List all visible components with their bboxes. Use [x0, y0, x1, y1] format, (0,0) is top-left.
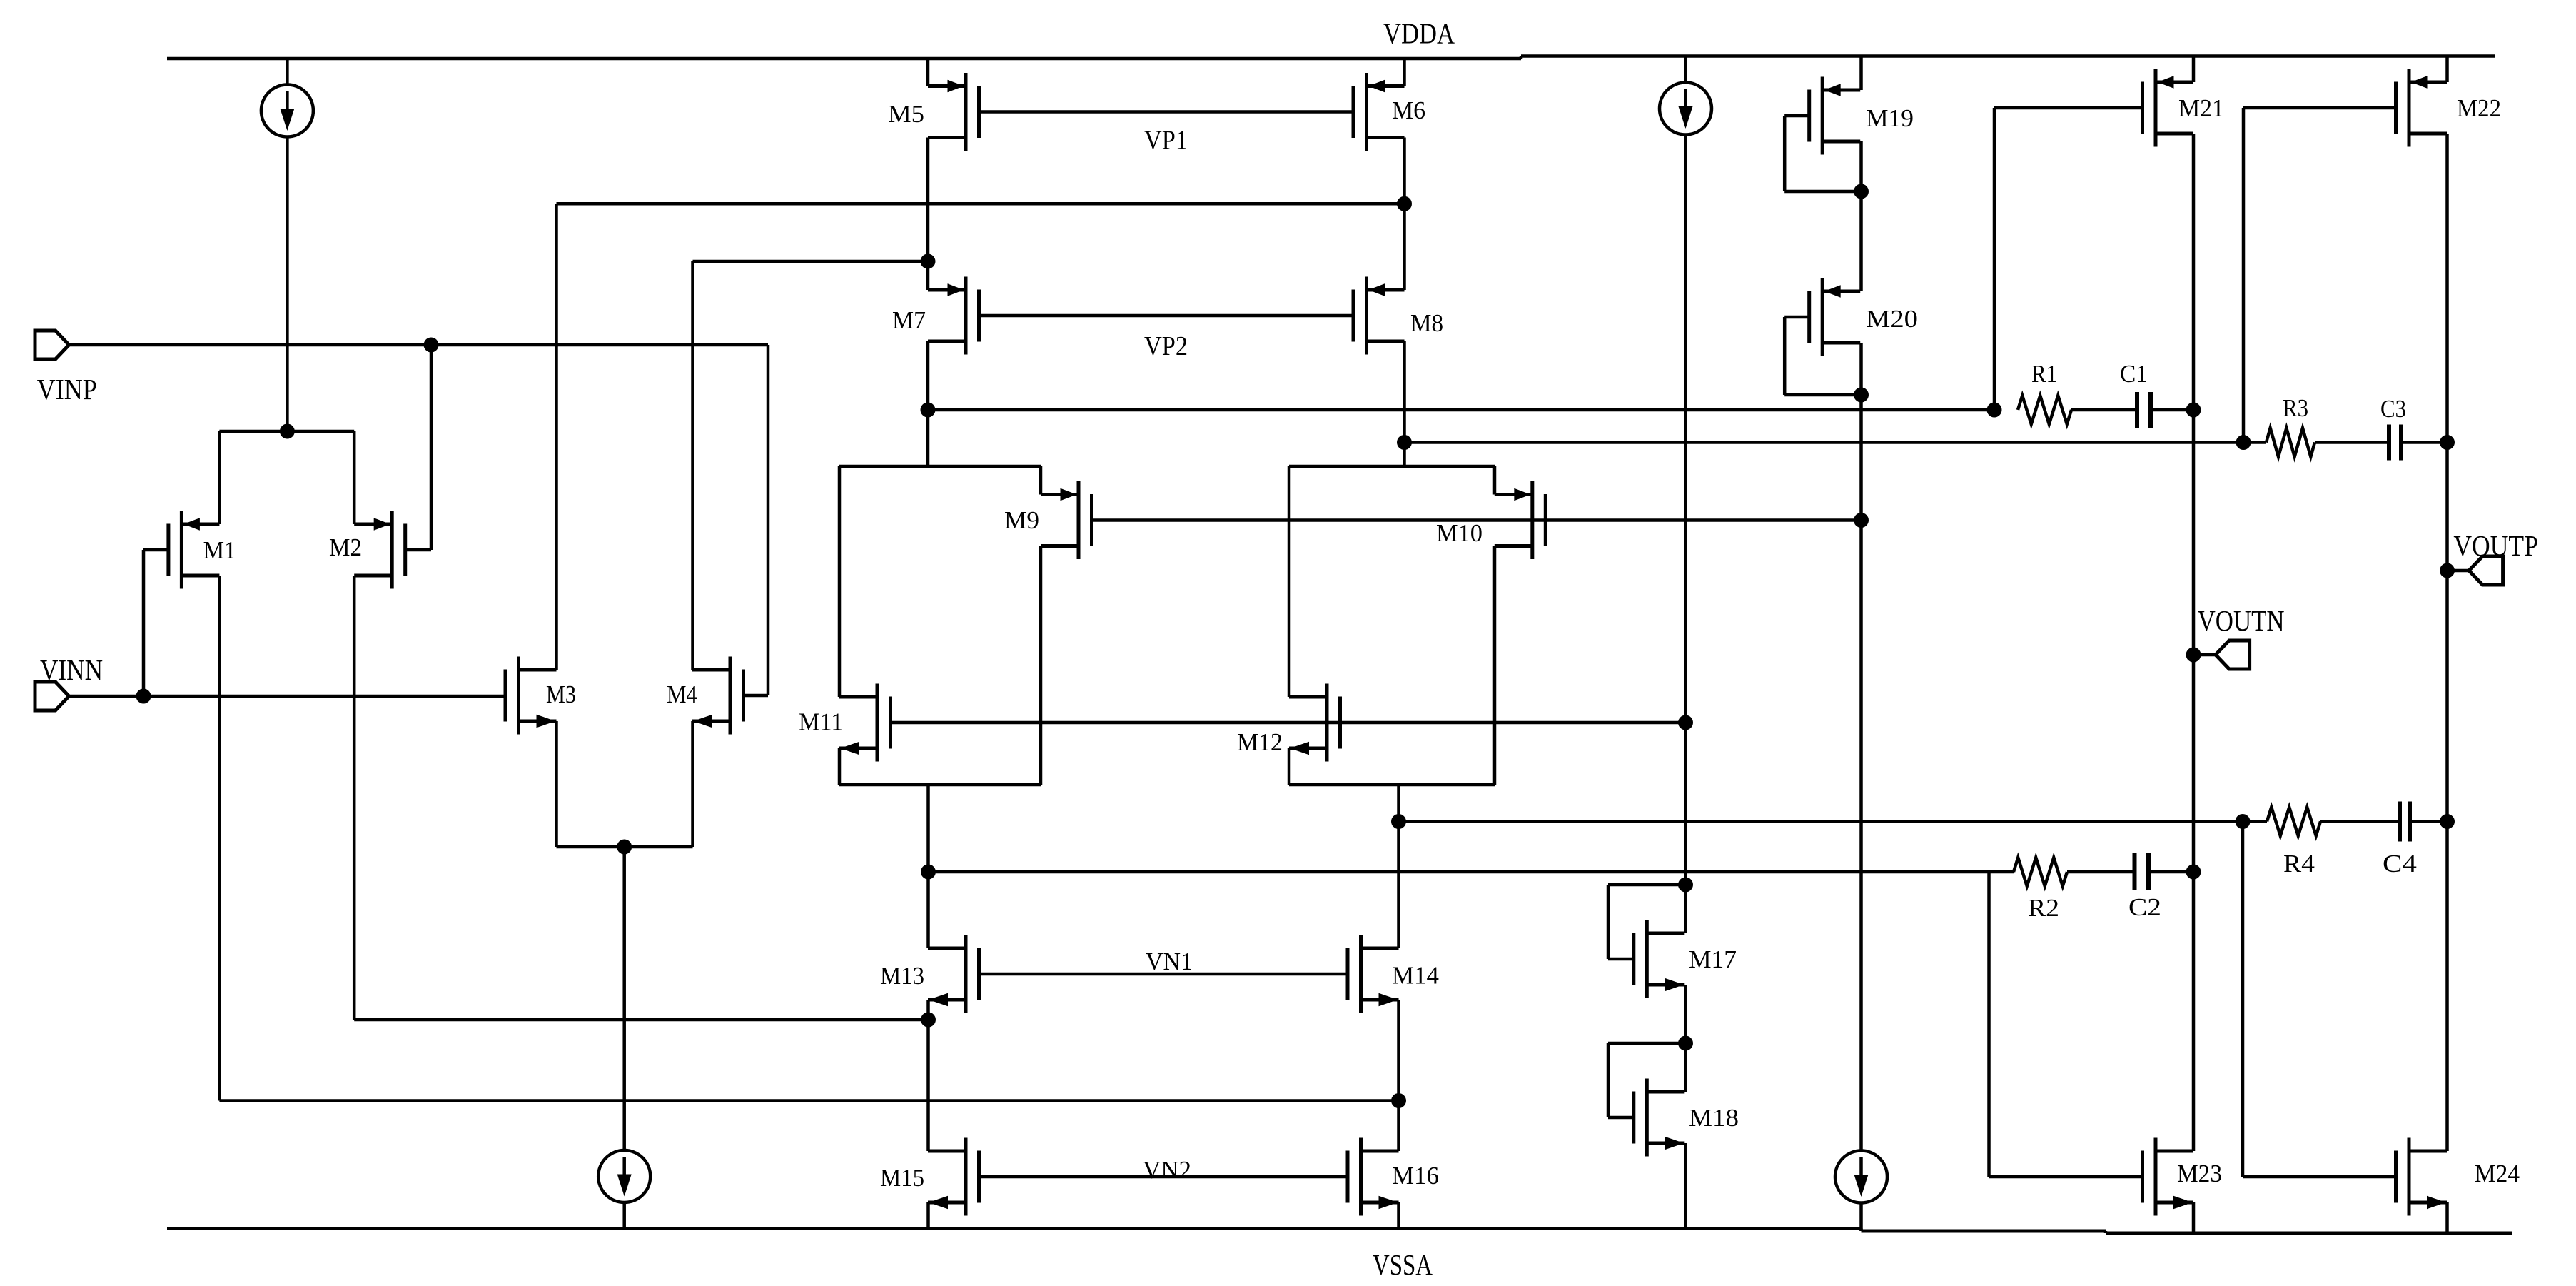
- wire M9/M10 gate line to bias: [1092, 518, 1862, 522]
- junction VOUTN port: [2186, 648, 2201, 663]
- wire M24 source to rail: [2445, 1202, 2449, 1233]
- svg-text:M19: M19: [1866, 104, 1914, 132]
- wire I4 stem: [1859, 521, 1863, 1151]
- wire M17 source to M18 drain: [1684, 985, 1687, 1092]
- port VOUTP: [2469, 556, 2503, 585]
- wire M2 source up: [353, 431, 356, 524]
- svg-text:VP2: VP2: [1144, 331, 1188, 361]
- junction M11/M12 gates / M17 drain net: [1678, 715, 1693, 730]
- wire M1 gate: [143, 548, 168, 552]
- svg-text:M15: M15: [880, 1164, 924, 1192]
- junction M9/M10 gates / M20 drain net: [1854, 513, 1869, 528]
- transistor M14: [1359, 935, 1363, 1013]
- transistor M9: [1077, 481, 1081, 559]
- wire M15 source to rail: [926, 1202, 930, 1229]
- wire M8 drain down: [1403, 341, 1406, 466]
- svg-text:VINP: VINP: [37, 373, 97, 406]
- wire M9 drain down: [1039, 546, 1043, 785]
- wire tail bar M1 M2: [219, 430, 354, 433]
- svg-text:R1: R1: [2031, 360, 2057, 388]
- junction C3 right / VOUTP: [2440, 435, 2455, 450]
- svg-text:VOUTN: VOUTN: [2198, 604, 2285, 637]
- junction M21 gate / R1 net: [1987, 403, 2002, 418]
- svg-text:C1: C1: [2120, 360, 2148, 388]
- junction M17 gate/drain: [1678, 878, 1693, 893]
- transistor M24: [2408, 1138, 2411, 1216]
- svg-text:C4: C4: [2383, 850, 2417, 878]
- current source I4: [1835, 1151, 1887, 1203]
- junction VINP/M2 gate: [424, 338, 439, 353]
- wire C2 to VOUTN column: [2148, 870, 2193, 874]
- wire M22 gate: [2243, 106, 2396, 110]
- wire top bar right lattice: [1289, 465, 1495, 468]
- resistor R1: [2018, 396, 2071, 424]
- svg-text:M5: M5: [888, 100, 924, 128]
- svg-text:M20: M20: [1866, 305, 1918, 333]
- wire M24 gate drop: [2241, 822, 2245, 1177]
- wire M21 source to rail: [2192, 56, 2196, 83]
- junction VINN/M1 gate: [136, 689, 151, 704]
- wire net M5 drain to M4 drain: [693, 260, 929, 263]
- junction C2 right / VOUTN: [2186, 865, 2201, 880]
- current source I2: [1660, 83, 1712, 135]
- svg-text:M23: M23: [2177, 1160, 2222, 1187]
- wire M22 source to rail: [2445, 56, 2449, 83]
- wire M19 drain to M20 source: [1859, 141, 1863, 291]
- wire VINP: [69, 343, 768, 347]
- transistor M23: [2154, 1138, 2158, 1216]
- svg-text:M22: M22: [2457, 94, 2501, 122]
- wire R4 net from second stage right: [1399, 820, 2268, 823]
- wire top bar left lattice: [839, 465, 1041, 468]
- wire R1 net from M7 drain: [928, 408, 1994, 412]
- port VOUTN: [2216, 641, 2250, 669]
- transistor M18: [1645, 1079, 1649, 1157]
- svg-text:M7: M7: [892, 306, 926, 334]
- wire M11/M12 gate line to bias: [891, 721, 1686, 725]
- wire M5 drain to M7 source: [926, 138, 930, 291]
- svg-text:VN1: VN1: [1146, 948, 1193, 975]
- wire M3 source down: [555, 721, 558, 847]
- junction C4 right / VOUTP: [2440, 814, 2455, 829]
- svg-text:M8: M8: [1410, 309, 1443, 337]
- wire I2 stem: [1684, 56, 1687, 83]
- resistor R2: [2014, 858, 2067, 886]
- junction R4 net / M24 gate: [2236, 814, 2251, 829]
- svg-text:R2: R2: [2028, 894, 2059, 922]
- junction tail M3/M4: [617, 840, 632, 855]
- junction second stage left / R2 net: [921, 865, 936, 880]
- svg-text:M14: M14: [1392, 962, 1439, 990]
- junction M14 source / M1 drain net: [1391, 1093, 1406, 1108]
- wire M6 source to rail: [1403, 59, 1406, 86]
- wire M10 drain down: [1493, 546, 1497, 785]
- junction VOUTP port: [2440, 563, 2455, 578]
- svg-text:C2: C2: [2128, 893, 2161, 921]
- wire VINP to M4 gate: [767, 345, 770, 695]
- junction second stage right / R4 net: [1391, 814, 1406, 829]
- wire R3 lead: [2243, 441, 2266, 444]
- current source I1: [261, 85, 313, 137]
- wire VN2 gate line: [979, 1175, 1348, 1179]
- wire M20 drain down to bias node: [1859, 343, 1863, 521]
- junction tail M1/M2: [280, 424, 295, 439]
- wire bottom bar left lattice: [839, 783, 1041, 787]
- port VINN: [35, 682, 69, 710]
- svg-text:M17: M17: [1689, 945, 1737, 973]
- wire M10 source up: [1493, 466, 1497, 495]
- wire M5 source to rail: [926, 59, 930, 86]
- svg-text:VDDA: VDDA: [1383, 17, 1455, 50]
- wire M13 source to M15 drain: [926, 1000, 930, 1151]
- wire M14 source to M16 drain: [1397, 1000, 1400, 1151]
- wire M2 drain net: [353, 576, 356, 1020]
- svg-text:M6: M6: [1392, 96, 1425, 124]
- wire M21 gate: [1994, 106, 2143, 110]
- resistor R4: [2267, 808, 2320, 836]
- wire VOUTN stub: [2193, 653, 2216, 657]
- wire M2 gate: [405, 548, 431, 552]
- wire C3 to VOUTP column: [2401, 441, 2448, 444]
- wire M12 drain up: [1288, 466, 1291, 697]
- transistor M5: [964, 73, 968, 151]
- transistor M11: [876, 684, 879, 762]
- wire I1 stem: [286, 59, 289, 85]
- wire M18 gate loop: [1608, 1116, 1634, 1120]
- transistor M12: [1325, 684, 1329, 762]
- transistor M8: [1365, 277, 1368, 355]
- transistor M4: [729, 657, 732, 735]
- wire M17 gate loop: [1608, 958, 1634, 961]
- ground rail VSSA: [167, 1227, 1862, 1230]
- svg-text:VSSA: VSSA: [1373, 1248, 1433, 1281]
- transistor M21: [2154, 69, 2158, 147]
- wire M21 drain column VOUTN: [2192, 134, 2196, 1151]
- transistor M2: [390, 511, 394, 589]
- junction M22 gate / R3 net: [2236, 435, 2251, 450]
- wire M6 drain to M8 source: [1403, 138, 1406, 291]
- wire R1 to C1: [2071, 408, 2137, 412]
- wire VINN: [69, 695, 507, 698]
- wire M1 source up: [218, 431, 221, 524]
- wire M19 gate loop: [1784, 114, 1809, 118]
- junction M13 source / M2 drain net: [921, 1013, 936, 1028]
- capacitor C2: [2133, 853, 2137, 890]
- current source I3: [598, 1150, 650, 1202]
- transistor M6: [1365, 73, 1368, 151]
- transistor M10: [1530, 481, 1534, 559]
- wire M18 source to rail: [1684, 1143, 1687, 1229]
- wire right lattice down to M14: [1397, 785, 1400, 948]
- svg-text:M18: M18: [1689, 1104, 1739, 1132]
- wire R2 to C2: [2067, 870, 2135, 874]
- wire VN1 gate line: [979, 973, 1348, 976]
- transistor M19: [1821, 77, 1824, 155]
- port VINP: [35, 331, 69, 359]
- svg-text:C3: C3: [2380, 395, 2406, 423]
- wire M12 source down: [1288, 748, 1291, 785]
- transistor M7: [964, 277, 968, 355]
- svg-text:M1: M1: [203, 536, 236, 564]
- transistor M15: [964, 1138, 968, 1216]
- wire VOUTP stub: [2448, 569, 2470, 573]
- junction M19 gate/drain: [1854, 184, 1869, 199]
- svg-text:M12: M12: [1237, 728, 1283, 756]
- junction R1 right / M21 drain: [2186, 403, 2201, 418]
- resistor R3: [2266, 428, 2315, 457]
- wire R3 net from M8 drain: [1405, 441, 2244, 444]
- svg-text:VINN: VINN: [40, 653, 103, 686]
- junction M7 drain / R1 net: [921, 403, 936, 418]
- wire VP1 gate line: [979, 110, 1354, 114]
- svg-text:R4: R4: [2283, 850, 2315, 878]
- wire R4 to C4: [2320, 820, 2400, 823]
- junction M18 gate/drain: [1678, 1036, 1693, 1051]
- wire M23 gate drop: [1987, 872, 1991, 1177]
- svg-text:VP1: VP1: [1144, 126, 1188, 156]
- svg-text:M24: M24: [2475, 1160, 2520, 1187]
- junction M5 drain / M4 drain net: [921, 254, 936, 269]
- wire M16 source to rail: [1397, 1202, 1400, 1229]
- svg-text:M10: M10: [1436, 519, 1483, 547]
- wire C4 to VOUTP column: [2410, 820, 2448, 823]
- wire M19 source to rail: [1859, 56, 1863, 91]
- wire VP2 gate line: [979, 314, 1354, 318]
- wire left lattice down to M13: [926, 785, 930, 948]
- svg-text:VOUTP: VOUTP: [2453, 529, 2538, 562]
- wire R3 to C3: [2315, 441, 2389, 444]
- svg-text:M16: M16: [1392, 1162, 1439, 1190]
- wire bottom bar right lattice: [1289, 783, 1495, 787]
- wire M20 gate loop: [1784, 316, 1809, 319]
- transistor M17: [1645, 920, 1649, 998]
- svg-text:M9: M9: [1004, 506, 1039, 534]
- capacitor C1: [2135, 392, 2139, 428]
- wire M22 drain column VOUTP: [2445, 134, 2449, 1151]
- wire C1 to VOUTN column: [2151, 408, 2193, 412]
- capacitor C3: [2387, 425, 2391, 461]
- svg-text:M13: M13: [880, 962, 924, 990]
- transistor M3: [517, 657, 520, 735]
- wire M7 drain down: [926, 341, 930, 466]
- transistor M20: [1821, 278, 1824, 356]
- wire M4 source down: [691, 721, 694, 847]
- svg-text:M3: M3: [546, 680, 576, 708]
- wire M4 gate: [744, 694, 769, 698]
- svg-text:VN2: VN2: [1143, 1156, 1191, 1184]
- junction M6 drain / M3 drain net: [1397, 196, 1412, 211]
- wire tail bar M3 M4: [557, 845, 693, 849]
- wire net M6 drain to M3 drain: [557, 202, 1405, 206]
- transistor M16: [1359, 1138, 1363, 1216]
- transistor M13: [964, 935, 968, 1013]
- junction M8 drain / R3 net: [1397, 435, 1412, 450]
- svg-text:M4: M4: [667, 680, 697, 708]
- svg-text:M2: M2: [329, 533, 362, 561]
- transistor M22: [2408, 69, 2411, 147]
- wire I3 stem: [622, 847, 626, 1150]
- power rail VDDA: [167, 57, 1521, 61]
- wire M9 source up: [1039, 466, 1043, 495]
- wire M1 drain net: [218, 576, 221, 1101]
- svg-text:M21: M21: [2178, 94, 2224, 122]
- junction M20 gate/drain: [1854, 388, 1869, 403]
- wire M23 source to rail: [2192, 1202, 2196, 1233]
- svg-text:R3: R3: [2283, 394, 2308, 422]
- wire R2 net from second stage left: [929, 870, 2014, 874]
- capacitor C4: [2398, 802, 2402, 842]
- svg-text:M11: M11: [799, 708, 843, 736]
- wire M11 drain up: [838, 466, 842, 697]
- wire M11 source down: [838, 748, 842, 785]
- transistor M1: [180, 511, 183, 589]
